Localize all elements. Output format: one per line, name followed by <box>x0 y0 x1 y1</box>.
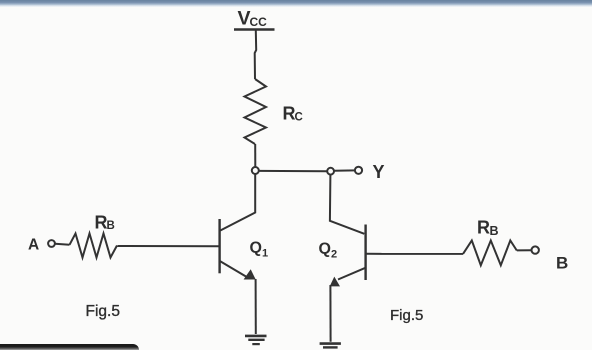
terminal B <box>532 246 539 253</box>
svg-text:2: 2 <box>331 249 337 261</box>
svg-text:B: B <box>107 220 115 232</box>
svg-text:1: 1 <box>262 248 268 260</box>
svg-text:A: A <box>28 237 39 254</box>
ground Q1 <box>245 336 267 344</box>
svg-text:CC: CC <box>250 15 268 29</box>
svg-text:Fig.5: Fig.5 <box>390 307 423 324</box>
svg-text:Q: Q <box>319 241 331 258</box>
wire RC to node <box>254 144 256 167</box>
terminal Y <box>355 167 362 174</box>
svg-text:Q: Q <box>250 240 262 257</box>
resistor RC <box>245 79 267 144</box>
svg-text:Fig.5: Fig.5 <box>86 303 120 320</box>
resistor RB left <box>70 234 118 258</box>
label RC <box>283 104 303 124</box>
svg-text:C: C <box>295 112 303 124</box>
wire Q1 collector <box>220 174 255 230</box>
wire node to Q2 junction <box>259 170 327 172</box>
wire terminal A to RB <box>55 243 70 246</box>
terminal A <box>48 240 55 247</box>
node collector junction <box>252 167 259 174</box>
svg-text:R: R <box>477 218 490 238</box>
transistor Q2 <box>330 225 366 287</box>
wire RB to terminal B <box>517 249 531 251</box>
svg-text:Y: Y <box>373 162 385 182</box>
wire Q2 collector <box>330 175 364 234</box>
wire Q1 emitter to ground <box>255 279 257 334</box>
wire Q1 base <box>118 245 219 247</box>
power VCC <box>234 8 275 30</box>
label Q2 <box>319 241 338 261</box>
wire Q2 base <box>367 253 464 255</box>
node Q2 junction <box>327 168 334 175</box>
resistor RB right <box>463 241 517 266</box>
wire junction to terminal Y <box>334 169 355 171</box>
wire Q2 emitter to ground <box>329 285 331 342</box>
svg-text:B: B <box>490 224 499 238</box>
wire VCC to RC <box>255 31 257 80</box>
ground Q2 <box>320 344 341 348</box>
label Q1 <box>250 240 269 260</box>
transistor Q1 <box>220 219 256 280</box>
label RB right <box>477 218 499 239</box>
svg-text:B: B <box>556 254 568 273</box>
label RB left <box>95 213 115 233</box>
